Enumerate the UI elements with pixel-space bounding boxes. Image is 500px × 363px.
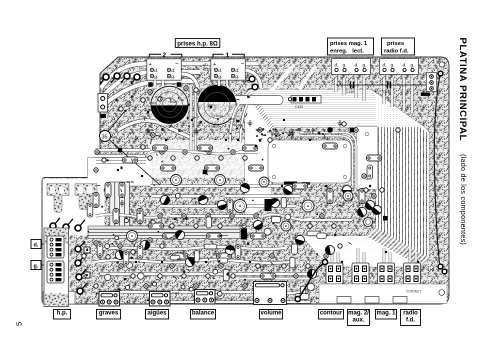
svg-text:CONTACT: CONTACT: [406, 290, 421, 294]
pad 58: [320, 214, 324, 218]
pad 41: [306, 264, 310, 268]
wire ribbon top-left 2: [103, 72, 200, 96]
capacitor C436 (large can): [151, 86, 188, 124]
svg-text:graves: graves: [99, 311, 119, 317]
resistor R106: [161, 165, 176, 171]
resistor R109: [293, 183, 308, 189]
terminal pin left area 1: [50, 218, 60, 229]
connector footprint mag2aux: [352, 263, 369, 284]
junction dot 13: [369, 185, 371, 187]
svg-text:R168: R168: [253, 252, 261, 256]
pad 49: [170, 224, 174, 228]
svg-text:403: 403: [121, 76, 126, 80]
pad 14: [160, 150, 164, 154]
white central band: [148, 140, 253, 178]
resistor R103: [243, 145, 258, 151]
slot in pad 2b: [87, 187, 92, 194]
pad 30: [170, 264, 174, 268]
label box g.: [31, 261, 41, 270]
svg-text:f.d.: f.d.: [406, 318, 415, 324]
svg-text:35: 35: [102, 134, 108, 140]
ground symbol 4: [290, 130, 295, 136]
pad in column 1: [365, 132, 368, 135]
junction dot 16: [295, 251, 297, 253]
junction dot 21: [161, 261, 163, 263]
pad 9: [141, 145, 145, 149]
svg-text:d.: d.: [34, 243, 39, 249]
svg-text:d.: d.: [171, 68, 175, 74]
pad 46: [82, 274, 86, 278]
capacitor C208: [281, 221, 291, 231]
resistor R304: [227, 199, 233, 213]
label box prises mag.1: [328, 38, 374, 55]
diode D3: [265, 199, 272, 211]
pad 51: [194, 224, 198, 228]
component reference labels field: [110, 95, 353, 301]
svg-text:prises: prises: [387, 41, 404, 47]
label box mag1: [376, 310, 397, 320]
connector small left edge: [98, 94, 108, 113]
label box d.: [31, 240, 41, 249]
pad 45: [94, 284, 98, 288]
pad 37: [256, 264, 260, 268]
transistor Q10: [356, 206, 368, 218]
junction dot 1: [147, 111, 149, 113]
screw hole top right: [439, 62, 444, 67]
pad 6: [184, 86, 188, 90]
white strip bottom-left board edge: [43, 292, 75, 305]
wire ribbon below circles: [118, 121, 196, 140]
svg-text:C379: C379: [146, 128, 154, 132]
svg-text:5: 5: [15, 322, 24, 326]
wire ribbon between blocks: [182, 74, 199, 88]
label box balance: [191, 310, 216, 320]
pad 24: [94, 241, 98, 245]
transistor Q30: [371, 204, 384, 217]
wire fan traces: [246, 91, 428, 266]
svg-text:contour: contour: [320, 311, 343, 317]
pad in keep-out rect 2: [343, 144, 346, 147]
svg-text:g.: g.: [363, 63, 367, 68]
leader line from g. box: [41, 264, 46, 266]
resistor R122: [93, 193, 99, 208]
resistor R120: [261, 273, 276, 279]
pad 7: [194, 88, 198, 92]
capacitor C435 (large can): [198, 85, 236, 125]
component strip below keep-out rect: [284, 182, 310, 187]
transistor Q16: [216, 199, 227, 210]
svg-text:aux.: aux.: [352, 318, 364, 324]
resistor R107: [205, 165, 220, 171]
resistor R101: [153, 145, 168, 151]
black mark left edge: [101, 114, 107, 118]
svg-text:mag. 1: mag. 1: [376, 311, 396, 317]
ground symbol 1: [146, 128, 151, 134]
capacitor C201: [171, 175, 182, 186]
label box radio fd: [401, 310, 421, 326]
connector prises radio block: [380, 59, 419, 75]
terminal pin top 3: [121, 73, 131, 83]
pad 36: [243, 284, 247, 288]
connector prises h.p. block 1: [211, 59, 246, 80]
resistor R302: [123, 251, 129, 265]
svg-text:C433: C433: [295, 105, 303, 109]
junction dot 2: [165, 139, 167, 141]
svg-text:P440: P440: [304, 130, 311, 134]
resistor R305: [235, 245, 241, 259]
pad 18: [207, 150, 211, 154]
pad 64: [258, 128, 262, 132]
diode D5: [203, 170, 208, 175]
svg-text:d.: d.: [235, 68, 239, 74]
slot in pad 1a: [50, 187, 55, 194]
slot in pad 1b: [59, 187, 64, 194]
svg-text:D160: D160: [155, 95, 163, 99]
transistor Q17: [282, 184, 295, 197]
diode D2: [177, 82, 182, 87]
terminal pin h.p. column 1: [75, 241, 85, 252]
resistor R303: [137, 245, 143, 259]
terminal ring bottom of wire 1: [438, 264, 443, 269]
junction dot 7: [117, 169, 119, 171]
svg-text:C140: C140: [383, 90, 391, 94]
stipple block top of h.p. connector: [45, 229, 68, 244]
capacitor C435 halo: [196, 85, 237, 126]
pad 27: [131, 274, 135, 278]
svg-text:prises h.p. 8Ω: prises h.p. 8Ω: [177, 41, 218, 48]
pad in keep-out rect 3: [272, 175, 275, 178]
svg-text:TR361: TR361: [228, 117, 237, 121]
capacitor C206: [127, 231, 138, 242]
bracket 2 dimension line: [149, 54, 182, 57]
transistor Q11: [262, 294, 274, 306]
svg-text:P499: P499: [215, 252, 222, 256]
pad 50: [182, 214, 186, 218]
svg-text:g.: g.: [391, 63, 395, 68]
capacitor C140: [383, 82, 391, 95]
svg-text:volume: volume: [260, 311, 282, 317]
capacitor C202: [215, 175, 226, 186]
capacitor C205: [343, 191, 353, 201]
pad 19: [219, 156, 223, 160]
terminal pin left area 2: [63, 219, 73, 230]
potentiometer footprint graves: [99, 292, 120, 307]
pad 67: [160, 244, 164, 248]
slot in pad 2a: [78, 187, 83, 194]
svg-text:C435: C435: [211, 125, 220, 129]
wire between capacitors: [191, 86, 196, 150]
junction dot 20: [205, 261, 207, 263]
svg-text:C389: C389: [286, 131, 294, 135]
pad 55: [242, 224, 246, 228]
transistor Q9: [294, 234, 305, 245]
diode D6: [118, 148, 123, 153]
pad 63: [396, 128, 400, 132]
pad 29: [158, 274, 162, 278]
label box graves: [97, 310, 121, 320]
svg-text:g.: g.: [154, 75, 158, 80]
svg-text:402: 402: [111, 76, 116, 80]
wire meanders central 2: [96, 150, 352, 302]
terminal pin left area 3: [75, 220, 85, 231]
pad 59: [332, 224, 336, 228]
transistor Q8: [252, 219, 265, 232]
wire wrap around keep-out rect: [300, 132, 356, 188]
component lead marks field: [98, 96, 368, 302]
svg-text:PLATINA PRINCIPAL: PLATINA PRINCIPAL: [457, 38, 468, 142]
wire vertical bundle base left-mid: [110, 182, 130, 232]
resistor R108: [249, 165, 264, 171]
pad 3: [141, 98, 145, 102]
connector h.p. header d: [47, 236, 64, 258]
transistor Q13: [239, 182, 251, 194]
pad 16: [183, 150, 187, 154]
svg-text:D19: D19: [347, 197, 353, 201]
wire ribbon right of block 1: [246, 70, 262, 88]
junction dot 9: [225, 139, 227, 141]
transistor Q14: [114, 249, 126, 261]
edge connector notch 2: [365, 297, 379, 304]
transistor Q2: [363, 198, 376, 211]
jumper wire terminal 2: [322, 259, 327, 264]
boxed pad e1: [84, 247, 90, 253]
diode D1: [148, 82, 153, 87]
svg-text:404: 404: [131, 77, 136, 81]
junction dot 18: [385, 251, 387, 253]
capacitor C230: [364, 218, 373, 227]
pad 12: [94, 168, 98, 172]
extra component footprints field: [105, 198, 327, 300]
svg-text:C218: C218: [257, 128, 265, 132]
svg-text:radio: radio: [403, 311, 418, 317]
pad 25: [106, 255, 110, 259]
svg-text:TR104: TR104: [214, 114, 223, 118]
capacitor C207: [234, 200, 247, 213]
transistor Q3: [307, 269, 317, 279]
svg-text:balance: balance: [192, 311, 215, 317]
svg-text:enreg. lect.: enreg. lect.: [330, 49, 364, 55]
svg-text:D91: D91: [129, 131, 135, 135]
terminal pin right of circles 1: [245, 76, 255, 82]
potentiometer footprint aigues: [150, 292, 171, 307]
mounting pad T-shape 1: [47, 184, 69, 213]
terminal ring top of wire: [438, 71, 443, 76]
svg-text:D186: D186: [127, 180, 135, 184]
wire stubs to bottom connectors: [332, 248, 416, 263]
leader line from d. box: [41, 243, 46, 245]
pad 38: [270, 254, 274, 258]
pad 65: [268, 138, 272, 142]
resistor R118: [173, 253, 188, 259]
potentiometer footprint balance: [195, 290, 216, 305]
connector h.p. header g: [47, 261, 64, 283]
transistor Q4: [269, 197, 282, 210]
wire horizontal bus base lower-left: [88, 226, 240, 239]
svg-text:g.: g.: [411, 63, 415, 68]
ground symbol 6: [338, 120, 343, 126]
capacitor C204: [302, 200, 314, 212]
svg-text:aigües: aigües: [147, 311, 167, 317]
wire ribbon top-left 1: [101, 64, 258, 89]
svg-text:g.: g.: [235, 75, 239, 80]
junction dot 6: [309, 139, 311, 141]
resistor R401: [367, 155, 382, 161]
junction dot 3: [191, 119, 193, 121]
label box prises radio: [382, 38, 415, 55]
wire bus with capacitors C139 C140: [336, 84, 427, 86]
potentiometer footprint volume: [254, 282, 287, 305]
pad 2: [126, 102, 130, 106]
svg-text:g.: g.: [34, 264, 39, 270]
transistor Q18: [325, 245, 336, 256]
transistor Q6: [184, 256, 197, 269]
resistor R121: [123, 157, 138, 163]
pad in keep-out rect 1: [272, 144, 275, 147]
pad 32: [194, 284, 198, 288]
svg-text:C277: C277: [215, 297, 223, 301]
wire ribbon top-left 3: [105, 81, 196, 104]
pad 13: [148, 156, 152, 160]
pad 53: [218, 224, 222, 228]
svg-text:2: 2: [163, 52, 167, 59]
edge connector bar bottom: [319, 284, 447, 304]
resistor R123: [149, 223, 164, 229]
terminal pin h.p. column 3: [76, 269, 86, 280]
resistor R114: [251, 233, 266, 239]
plane slash 1: [271, 65, 294, 91]
diode D4: [241, 229, 247, 240]
junction dot 14: [135, 261, 137, 263]
svg-text:TR490: TR490: [168, 100, 177, 104]
label box contour: [319, 310, 344, 320]
pad 48: [158, 214, 162, 218]
label box prises h.p. 8ohm: [175, 39, 220, 48]
resistor R402: [367, 165, 373, 179]
resistor R300: [87, 203, 93, 217]
resistor R116: [327, 189, 333, 204]
jumper wire terminal 1: [295, 296, 300, 301]
pad fan-left 1: [364, 188, 368, 192]
ground symbol 5: [120, 200, 125, 206]
svg-text:−: −: [241, 62, 245, 68]
resistor R113: [207, 233, 222, 239]
svg-text:1: 1: [226, 52, 230, 59]
svg-text:C467: C467: [293, 128, 301, 132]
junction dot 19: [417, 261, 419, 263]
pad 52: [206, 214, 210, 218]
component lead marks lower-left: [86, 189, 249, 304]
diode D30: [383, 216, 388, 221]
connector prises h.p. block 2: [147, 59, 182, 80]
svg-text:TR255: TR255: [233, 123, 242, 127]
svg-text:411: 411: [203, 63, 208, 67]
resistor R119: [217, 253, 232, 259]
pad 56: [254, 214, 258, 218]
svg-text:g.: g.: [343, 63, 347, 68]
pad 17: [195, 156, 199, 160]
pad 33: [206, 274, 210, 278]
pad 28: [144, 284, 148, 288]
white zone around h.p. connector: [43, 228, 70, 304]
black mark below strip: [421, 93, 430, 96]
junction dot 12: [325, 185, 327, 187]
pad 15: [171, 156, 175, 160]
diode D7: [328, 128, 333, 133]
svg-text:prises mag. 1: prises mag. 1: [330, 41, 368, 47]
svg-text:C139: C139: [346, 90, 354, 94]
terminal ring bottom of wire 2: [442, 269, 447, 274]
transistor Q7: [140, 240, 151, 251]
junction dot 17: [341, 261, 343, 263]
terminal pin top 2: [111, 73, 121, 83]
svg-text:P310: P310: [165, 193, 172, 197]
callout leader line 2: [110, 140, 161, 185]
pad 31: [182, 274, 186, 278]
pad 26: [119, 264, 123, 268]
white zone lower-left (mounting area): [43, 179, 105, 236]
wire meanders central: [95, 100, 318, 279]
pad 66: [148, 238, 152, 242]
pad 61: [342, 122, 346, 126]
pad 20: [231, 150, 235, 154]
wire curves from bus bar: [230, 104, 247, 142]
ground symbol 2: [194, 128, 199, 134]
edge connector notch 3: [393, 297, 407, 304]
transistor Q1: [342, 185, 351, 194]
svg-text:g.: g.: [171, 75, 175, 80]
junction dot 8: [141, 175, 143, 177]
pad in keep-out rect 4: [343, 175, 346, 178]
svg-text:+: +: [213, 62, 216, 68]
white keep-out column right: [357, 127, 378, 190]
diode D8: [350, 128, 355, 133]
transistor Q15: [159, 194, 171, 206]
edge connector notch 1: [337, 297, 351, 304]
terminal pin top 4: [131, 74, 141, 84]
connector footprint mag1: [378, 263, 395, 284]
svg-text:R96: R96: [262, 264, 268, 268]
pad 35: [231, 274, 235, 278]
label box volume: [260, 310, 283, 320]
pad 11: [102, 158, 106, 162]
junction dot 10: [255, 145, 257, 147]
pad 4: [148, 90, 152, 94]
pad 54: [230, 214, 234, 218]
white keep-out rect right-center: [268, 140, 351, 183]
ground symbol 3: [248, 120, 253, 126]
pad 57: [308, 224, 312, 228]
transistor Q12: [197, 194, 209, 206]
pad 39: [282, 264, 286, 268]
junction dot 4: [237, 139, 239, 141]
svg-text:C77: C77: [132, 238, 138, 242]
terminal pin h.p. column 4: [77, 283, 87, 294]
svg-text:412: 412: [203, 68, 209, 72]
mounting pad T-shape 2: [75, 184, 97, 210]
plane slash 2: [299, 66, 316, 89]
wire horizontal bus separators: [88, 229, 240, 235]
svg-text:401: 401: [100, 77, 105, 81]
svg-text:radio f.d.: radio f.d.: [384, 49, 409, 55]
svg-text:d.: d.: [355, 63, 359, 68]
label box mag2 aux: [348, 310, 370, 326]
pad 42: [324, 254, 328, 258]
transistor Q19: [174, 229, 187, 242]
terminal pin right of circles 2: [248, 84, 258, 90]
junction dot 5: [283, 119, 285, 121]
svg-text:d.: d.: [403, 63, 407, 68]
pad fan-left 3: [380, 188, 384, 192]
